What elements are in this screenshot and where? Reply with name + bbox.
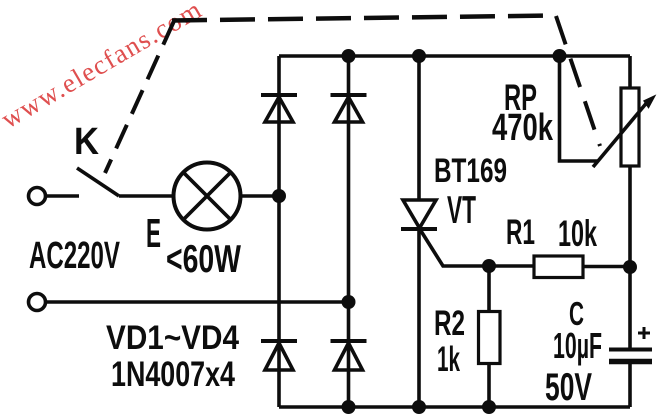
svg-text:VD1~VD4: VD1~VD4: [106, 319, 239, 357]
svg-text:1k: 1k: [437, 340, 460, 379]
svg-text:10k: 10k: [558, 213, 597, 254]
svg-text:10µF: 10µF: [553, 325, 602, 366]
svg-text:50V: 50V: [545, 366, 592, 409]
svg-text:BT169: BT169: [434, 152, 507, 190]
svg-text:VT: VT: [447, 189, 476, 232]
svg-text:AC220V: AC220V: [29, 235, 120, 277]
svg-text:R1: R1: [506, 213, 535, 252]
svg-text:R2: R2: [434, 304, 465, 343]
svg-text:470k: 470k: [492, 107, 554, 149]
svg-text:1N4007x4: 1N4007x4: [111, 355, 235, 394]
svg-text:E: E: [146, 210, 161, 256]
svg-text:<60W: <60W: [166, 238, 241, 281]
svg-text:K: K: [74, 121, 99, 163]
